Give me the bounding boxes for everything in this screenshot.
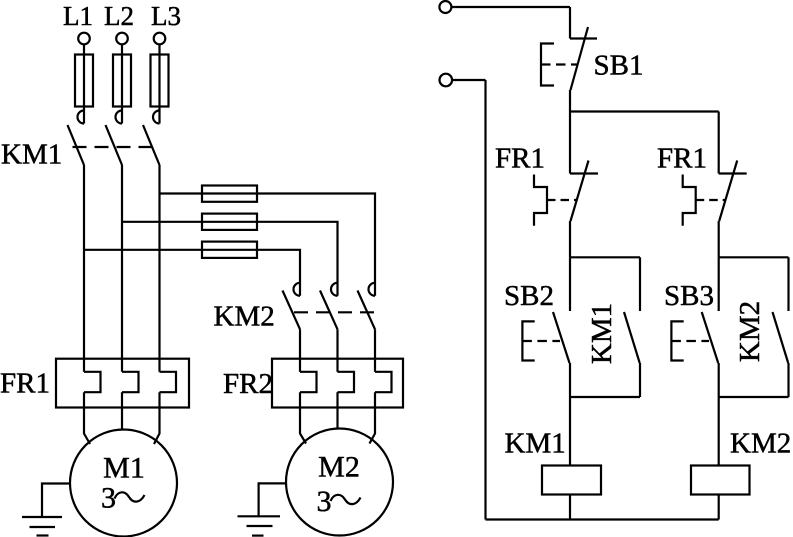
KM2 main contact 3 fixed hook [369, 283, 375, 296]
wire branch to fuse FU5 and KM2 contact 2 [122, 222, 338, 296]
wire SB3 to box bottom [718, 363, 720, 397]
FR1 heater element 3 [160, 372, 177, 392]
wire FR1 left to parallel box [569, 221, 571, 257]
wire parallel box 2 bottom [719, 396, 789, 398]
SB1 actuator dashed link [541, 63, 578, 65]
bottom rail wire [486, 518, 719, 520]
wire into FR1 contact right [718, 112, 720, 174]
FR1 left contact tick [570, 172, 598, 174]
terminal L3 [154, 33, 166, 45]
wire SB2 to box bottom [569, 363, 571, 397]
svg-text:FR2: FR2 [223, 368, 273, 400]
svg-text:KM2: KM2 [734, 301, 766, 362]
SB1 blade [571, 27, 589, 90]
wire KM2 contact 3 to FR2 [374, 329, 376, 372]
FR2 heater element 2 [338, 372, 355, 392]
FR1 right contact blade [719, 161, 737, 222]
wire FR1 to motor M1 lead 1 [84, 392, 90, 444]
wire parallel box 1 top [570, 256, 640, 258]
SB2 actuator dashed link [522, 340, 560, 342]
motor M2 circle [286, 429, 393, 536]
wire FR1 to motor M1 lead 2 [121, 392, 123, 430]
FR2 heater element 3 [375, 372, 392, 392]
svg-text:M1: M1 [103, 452, 145, 485]
fuse FU2 [113, 55, 131, 107]
wire FR1 right to parallel box [718, 221, 720, 257]
FR1 left contact blade [571, 161, 589, 222]
KM1 linkage dashed line [73, 146, 153, 148]
wire M2 to ground [259, 483, 287, 516]
ground M1 [22, 517, 62, 536]
wire into KM1 aux contact [639, 257, 641, 311]
FR1 right actuator dashed link [696, 199, 725, 201]
wire into SB1 [569, 7, 571, 39]
svg-text:KM2: KM2 [730, 428, 791, 460]
svg-text:SB1: SB1 [594, 50, 644, 82]
FR1 right thermal actuator [683, 175, 696, 226]
KM1 aux contact blade [624, 312, 640, 363]
terminal control bottom [440, 74, 453, 87]
fuse FU1 [75, 55, 93, 107]
KM2 main contact 1 fixed hook [294, 283, 301, 296]
SB3 actuator dashed link [671, 340, 709, 342]
fuse FU3 [151, 55, 169, 107]
motor M1 circle [70, 430, 177, 537]
M1 tilde wave [115, 492, 145, 501]
wire M1 to ground [42, 484, 70, 517]
svg-text:KM2: KM2 [214, 301, 275, 333]
wire box2 to coil KM2 [718, 397, 720, 466]
wire bottom terminal to left rail [452, 79, 485, 81]
KM1 main contact 3 blade [143, 125, 160, 165]
fuse FU6 [202, 242, 257, 258]
svg-text:KM1: KM1 [586, 303, 618, 364]
wire into FR1 contact left [569, 112, 571, 174]
wire parallel box 2 top [719, 256, 789, 258]
svg-text:KM1: KM1 [505, 428, 566, 460]
wire coil KM1 to bottom rail [569, 495, 571, 520]
svg-text:L1: L1 [63, 1, 93, 31]
wire branch to second rung [570, 110, 719, 112]
svg-text:3: 3 [317, 485, 332, 518]
wire branch to fuse FU4 and KM2 contact 3 [160, 194, 376, 296]
wire KM1 aux to box bottom [639, 363, 641, 397]
wire phase3 terminal to KM1 [158, 44, 160, 123]
wire SB1 to branch point [569, 90, 571, 112]
wire KM2 contact 1 to FR2 [299, 329, 301, 372]
wire into KM2 aux contact [787, 257, 789, 311]
SB2 pushbutton actuator [522, 321, 534, 360]
FR1 left actuator dashed link [547, 199, 576, 201]
svg-text:FR1: FR1 [657, 143, 707, 175]
KM1 main contact 3 fixed hook [153, 111, 160, 124]
KM1 main contact 2 fixed hook [116, 111, 122, 124]
wire KM2 contact 2 to FR2 [336, 329, 338, 372]
fuse FU4 [202, 186, 257, 202]
svg-text:SB3: SB3 [664, 280, 714, 312]
wire phase1 KM1 to FR1 [83, 165, 85, 372]
terminal L1 [78, 33, 90, 45]
wire top terminal to SB1 [452, 6, 571, 8]
SB2 blade [553, 312, 570, 363]
svg-text:KM1: KM1 [1, 139, 62, 171]
coil KM2 [691, 466, 750, 495]
wire phase2 KM1 to FR1 [121, 165, 123, 372]
wire FR2 to motor M2 lead 2 [336, 392, 338, 429]
KM2 main contact 2 fixed hook [331, 283, 337, 296]
FR1 heater element 2 [122, 372, 139, 392]
terminal L2 [116, 33, 128, 45]
KM2 aux contact blade [773, 312, 789, 363]
wire coil KM2 to bottom rail [718, 495, 720, 520]
KM2 main contact 2 blade [320, 291, 338, 330]
wire phase3 KM1 to FR1 [158, 165, 160, 372]
svg-text:M2: M2 [318, 451, 360, 484]
wire KM2 aux to box bottom [787, 363, 789, 397]
coil KM1 [542, 466, 601, 495]
SB3 pushbutton actuator [671, 321, 683, 360]
svg-text:FR1: FR1 [0, 368, 50, 400]
wire parallel box 1 bottom [570, 396, 640, 398]
KM2 linkage dashed line [294, 311, 382, 313]
left rail wire [484, 80, 486, 520]
FR1 thermal relay box [56, 359, 189, 408]
wire FR2 to motor M2 lead 3 [370, 392, 376, 443]
wire phase2 terminal to KM1 [121, 44, 123, 123]
wire FR2 to motor M2 lead 1 [300, 392, 306, 443]
wire branch to fuse FU6 and KM2 contact 1 [84, 250, 300, 296]
svg-text:L3: L3 [151, 1, 181, 31]
KM1 main contact 1 fixed hook [78, 111, 84, 124]
FR1 right contact tick [719, 172, 747, 174]
wire phase1 terminal to KM1 [83, 44, 85, 123]
KM2 main contact 3 blade [358, 291, 376, 330]
KM1 main contact 1 blade [68, 125, 85, 165]
FR2 thermal relay box [272, 359, 403, 408]
fuse FU5 [202, 214, 257, 230]
SB1 fixed contact tick [570, 37, 597, 39]
svg-text:L2: L2 [104, 1, 134, 31]
terminal control top [439, 1, 451, 13]
FR2 heater element 1 [300, 372, 317, 392]
SB1 pushbutton actuator [541, 44, 554, 86]
SB3 blade [702, 312, 719, 363]
KM2 main contact 1 blade [283, 291, 301, 330]
wire into SB2 [569, 257, 571, 311]
ground M2 [238, 516, 281, 535]
svg-text:FR1: FR1 [495, 143, 545, 175]
M2 tilde wave [331, 495, 361, 504]
svg-text:SB2: SB2 [504, 280, 554, 312]
wire FR1 to motor M1 lead 3 [154, 392, 160, 444]
wire box1 to coil KM1 [569, 397, 571, 466]
FR1 left thermal actuator [534, 175, 547, 226]
wire into SB3 [718, 257, 720, 311]
FR1 heater element 1 [84, 372, 101, 392]
KM1 main contact 2 blade [106, 125, 123, 165]
